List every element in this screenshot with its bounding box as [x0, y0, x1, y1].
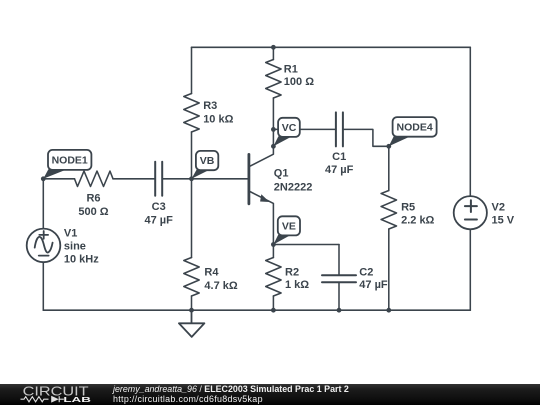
svg-text:2.2 kΩ: 2.2 kΩ — [401, 215, 434, 227]
wire left rail upper — [42, 179, 44, 229]
resistor R6 — [75, 171, 114, 186]
label C3 value — [145, 201, 174, 226]
svg-text:sine: sine — [64, 241, 86, 253]
svg-text:2N2222: 2N2222 — [274, 181, 313, 193]
node NODE1 junction — [41, 176, 46, 181]
wire C2 top lead — [338, 245, 340, 275]
node C2 bottom junction — [337, 308, 342, 313]
label V2 value — [492, 202, 515, 227]
footer caption text — [113, 385, 349, 405]
label V1 value — [64, 227, 99, 265]
label Q1 value — [274, 168, 313, 194]
transistor Q1 — [249, 146, 274, 244]
svg-text:10 kHz: 10 kHz — [64, 254, 99, 266]
wire C2 bottom lead — [338, 282, 340, 310]
label C1 value — [325, 151, 354, 176]
wire R1 bottom lead to collector node — [272, 98, 274, 146]
svg-text:47 µF: 47 µF — [325, 164, 354, 176]
node flag NODE1 — [43, 150, 91, 179]
svg-text:R1: R1 — [284, 63, 298, 75]
node R5 bottom junction — [386, 308, 391, 313]
svg-text:C3: C3 — [152, 201, 166, 213]
circuitlab logo — [0, 384, 110, 405]
capacitor C3 — [155, 162, 162, 196]
svg-text:V1: V1 — [64, 227, 77, 239]
ground — [179, 310, 205, 337]
wire R6 to C3 — [113, 178, 155, 180]
svg-text:47 µF: 47 µF — [359, 279, 388, 291]
svg-text:10 kΩ: 10 kΩ — [203, 113, 233, 125]
capacitor C2 — [322, 275, 356, 282]
capacitor C1 — [336, 112, 343, 146]
resistor R4 — [184, 258, 199, 297]
wire R2 bottom lead — [272, 296, 274, 310]
node VE junction — [271, 242, 276, 247]
svg-text:1 kΩ: 1 kΩ — [285, 279, 309, 291]
node R2 bottom junction — [271, 308, 276, 313]
svg-text:R3: R3 — [203, 100, 217, 112]
label C2 value — [359, 266, 388, 291]
wire bottom rail — [43, 309, 470, 311]
svg-text:C1: C1 — [332, 151, 346, 163]
wire VE node to C2 — [273, 244, 339, 246]
wire right rail lower — [469, 229, 471, 310]
node flag VB — [192, 151, 219, 179]
svg-text:100 Ω: 100 Ω — [284, 76, 314, 88]
node VC wire tap — [271, 127, 276, 132]
wire R4 bottom lead — [191, 296, 193, 310]
wire R2 top lead — [272, 245, 274, 258]
svg-text:VE: VE — [282, 221, 296, 233]
svg-text:R5: R5 — [401, 201, 415, 213]
svg-text:R6: R6 — [86, 193, 100, 205]
wire R1 top lead — [272, 47, 274, 59]
wire C1 to NODE4 — [343, 129, 388, 146]
svg-text:4.7 kΩ: 4.7 kΩ — [204, 280, 237, 292]
resistor R1 — [266, 60, 281, 99]
svg-text:Q1: Q1 — [274, 168, 289, 180]
wire left rail lower — [42, 262, 44, 310]
label R6 value — [78, 193, 108, 218]
wire R5 bottom lead — [388, 229, 390, 310]
svg-text:NODE1: NODE1 — [52, 155, 88, 167]
svg-text:V2: V2 — [492, 202, 505, 214]
node VB junction — [189, 176, 194, 181]
svg-text:VC: VC — [282, 122, 297, 134]
node flag VC — [273, 118, 299, 147]
svg-text:LAB: LAB — [63, 395, 91, 404]
node flag NODE4 — [389, 117, 437, 146]
svg-text:VB: VB — [200, 155, 215, 167]
label R5 value — [401, 201, 434, 226]
voltage source V1 — [27, 229, 61, 263]
voltage source V2 — [454, 196, 487, 229]
wire R3 bottom lead — [191, 132, 193, 179]
svg-text:C2: C2 — [359, 266, 373, 278]
wire NODE4 to R5 — [388, 146, 390, 190]
svg-text:500 Ω: 500 Ω — [78, 206, 108, 218]
wire C3 to Q1 base — [163, 178, 249, 180]
wire R4 top lead — [191, 179, 193, 258]
resistor R3 — [184, 94, 199, 133]
svg-text:R4: R4 — [204, 267, 219, 279]
node R1 top junction — [271, 45, 276, 50]
wire top rail — [192, 46, 471, 48]
resistor R5 — [381, 191, 396, 230]
wire node1 to R6 — [43, 178, 74, 180]
node ground junction — [189, 308, 194, 313]
wire VC to C1 — [273, 128, 335, 130]
node NODE4 junction — [386, 144, 391, 149]
label R1 value — [284, 63, 314, 88]
svg-text:NODE4: NODE4 — [397, 122, 433, 134]
node flag VE — [273, 216, 300, 244]
label R3 value — [203, 100, 233, 125]
node VC collector junction — [271, 144, 276, 149]
svg-text:15 V: 15 V — [492, 214, 515, 226]
svg-text:47 µF: 47 µF — [145, 214, 174, 226]
svg-text:R2: R2 — [285, 266, 299, 278]
wire R3 top lead — [191, 47, 193, 93]
label R2 value — [285, 266, 309, 291]
resistor R2 — [266, 258, 281, 297]
wire right rail upper — [469, 47, 471, 196]
footer bar — [0, 384, 540, 405]
label R4 value — [204, 267, 237, 292]
